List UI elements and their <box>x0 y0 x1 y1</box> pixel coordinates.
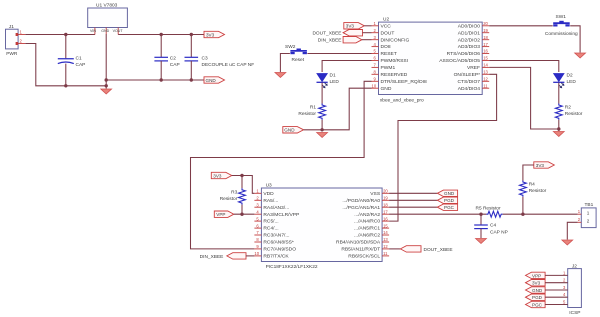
svg-text:.../PGD/AN0/RA0: .../PGD/AN0/RA0 <box>342 198 380 204</box>
wire U2 DTR loop to U3 RC7 <box>191 81 372 249</box>
svg-text:1: 1 <box>587 210 590 215</box>
resistor R2 <box>555 104 582 120</box>
switch SW1 Commissioning <box>545 14 578 37</box>
svg-text:DTR/SLEEP_RQ/DI8: DTR/SLEEP_RQ/DI8 <box>381 79 427 85</box>
svg-text:13: 13 <box>483 70 488 75</box>
svg-text:15: 15 <box>483 56 488 61</box>
svg-text:C2: C2 <box>170 56 176 62</box>
svg-text:.../AN5/RC1: .../AN5/RC1 <box>354 226 380 232</box>
svg-text:R5 Resistor: R5 Resistor <box>476 206 501 212</box>
svg-text:Resistor: Resistor <box>529 188 547 194</box>
svg-text:12: 12 <box>483 77 488 82</box>
junction R3 top <box>240 174 243 177</box>
svg-text:C1: C1 <box>76 56 82 62</box>
connector J1 <box>6 24 26 57</box>
svg-text:VSS: VSS <box>370 191 381 197</box>
flag PGC (J2 pin5) <box>526 300 568 308</box>
switch SW2 Reset <box>285 44 307 63</box>
ground below TB1 <box>562 240 573 245</box>
flag GND (R1 / U2 GND net) <box>283 127 304 133</box>
svg-text:LED: LED <box>330 79 340 85</box>
svg-text:GND: GND <box>101 29 109 33</box>
svg-text:AD0/DIO0: AD0/DIO0 <box>458 23 481 29</box>
svg-text:.../AN4/RC0: .../AN4/RC0 <box>354 219 380 225</box>
junction U1 gnd rail upper <box>105 78 108 81</box>
wire U2 VREF tie to ground junction <box>489 67 559 129</box>
svg-text:ON/SLEEP*: ON/SLEEP* <box>454 72 480 78</box>
flag GND (power rail) <box>204 77 225 83</box>
junction R2 bottom <box>557 127 560 130</box>
junction C3 top <box>190 33 193 36</box>
voltage regulator U1 <box>88 2 128 34</box>
connector J2 <box>568 263 582 316</box>
wire 3V3 to VDD pin1 <box>232 176 255 194</box>
wire R2 to ground junction <box>558 120 560 131</box>
wire U2 ASSOC to D2 <box>489 61 559 73</box>
svg-text:RC6/AN8/SS*: RC6/AN8/SS* <box>263 240 294 246</box>
svg-text:DOUT_XBEE: DOUT_XBEE <box>312 31 341 37</box>
svg-text:AD4/DIO4: AD4/DIO4 <box>458 86 481 92</box>
junction R4 bottom <box>521 213 524 216</box>
wire 3V3 to R4 <box>523 165 534 181</box>
svg-text:AD3/DIO3: AD3/DIO3 <box>458 44 481 50</box>
svg-text:RESET: RESET <box>381 51 397 57</box>
svg-text:PWM0/RSSI: PWM0/RSSI <box>381 58 408 64</box>
svg-text:DIN/CONFIG: DIN/CONFIG <box>381 37 410 43</box>
svg-text:PIC18F1XK22/LF1XK22: PIC18F1XK22/LF1XK22 <box>266 264 318 270</box>
junction U1 gnd rail lower <box>105 84 108 87</box>
svg-text:Resistor: Resistor <box>565 111 583 117</box>
wire R4 to junction <box>522 197 524 214</box>
svg-text:RA4/AN3/...: RA4/AN3/... <box>263 205 289 211</box>
svg-text:3V3: 3V3 <box>213 173 222 178</box>
flag 3V3 (R4 pullup) <box>534 162 555 168</box>
svg-text:VCC: VCC <box>381 23 392 29</box>
wire U1 GND down to ground <box>105 34 107 89</box>
svg-text:DECOUPLE uC CAP NF: DECOUPLE uC CAP NF <box>202 62 255 68</box>
resistor R1 <box>298 104 325 120</box>
ground below R1 <box>317 133 328 138</box>
wire R1 to ground junction <box>321 120 323 130</box>
svg-text:RB7/TX/CK: RB7/TX/CK <box>263 254 289 260</box>
svg-text:VDD: VDD <box>263 191 274 197</box>
wire R5 to TB1 pin1 <box>503 213 578 215</box>
wire VPP flag to MCLR pin4 <box>234 213 255 215</box>
svg-text:DIN_XBEE: DIN_XBEE <box>200 254 224 260</box>
svg-text:D1: D1 <box>330 73 336 79</box>
wire U2 PWM0/RSSI to D1 <box>322 61 371 73</box>
LED D1 <box>317 73 340 89</box>
U3 right pin stubs and numbers <box>382 189 389 257</box>
wire U2 ON/SLEEP loop to U3 RC0 <box>389 74 497 221</box>
wire GND flag to junction to U2 GND riser <box>304 88 372 130</box>
svg-text:DIN_XBEE: DIN_XBEE <box>318 38 342 44</box>
svg-text:Resistor: Resistor <box>220 196 238 202</box>
ground below SW2 <box>275 73 286 78</box>
wire D2 to R2 <box>558 83 560 104</box>
svg-text:GND: GND <box>532 288 543 293</box>
svg-text:10: 10 <box>254 251 259 256</box>
flag 3V3 (regulator output) <box>204 31 225 37</box>
svg-text:AD1/DIO1: AD1/DIO1 <box>458 30 481 36</box>
svg-text:18: 18 <box>483 35 488 40</box>
svg-text:RC4/...: RC4/... <box>263 226 278 232</box>
svg-text:CAP: CAP <box>76 62 86 68</box>
flag 3V3 (U2 VCC) <box>344 23 372 29</box>
svg-text:GND: GND <box>381 86 392 92</box>
svg-text:19: 19 <box>383 196 388 201</box>
junction C2 top <box>160 33 163 36</box>
wire U3 RA2 to R5 <box>389 213 486 215</box>
svg-text:DO8: DO8 <box>381 44 391 50</box>
flag PGC (U3 RA1) <box>389 204 458 210</box>
terminal block TB1 <box>578 202 597 228</box>
svg-text:CTS/DIO7: CTS/DIO7 <box>457 79 480 85</box>
flag 3V3 (U3 VDD pullup rail) <box>211 172 232 178</box>
resistor R3 <box>220 176 246 215</box>
flag GND (U3 VSS) <box>389 190 458 196</box>
resistor R4 <box>520 181 547 197</box>
svg-text:PWM1: PWM1 <box>381 65 396 71</box>
microcontroller U3 <box>261 182 382 269</box>
svg-text:RB6/SCK/SCL: RB6/SCK/SCL <box>348 254 380 260</box>
svg-text:R2: R2 <box>565 105 571 111</box>
svg-text:Resistor: Resistor <box>298 111 316 117</box>
svg-text:13: 13 <box>383 237 388 242</box>
svg-text:15: 15 <box>383 223 388 228</box>
svg-text:RA5/...: RA5/... <box>263 198 278 204</box>
svg-text:ICSP: ICSP <box>569 310 580 316</box>
svg-text:DOUT_XBEE: DOUT_XBEE <box>424 247 453 253</box>
svg-text:RC3/AN7/...: RC3/AN7/... <box>263 233 289 239</box>
wire U2 AD0 to SW1 <box>489 25 553 27</box>
svg-text:18: 18 <box>383 202 388 207</box>
svg-text:12: 12 <box>383 244 388 249</box>
svg-text:VPP: VPP <box>216 212 225 217</box>
svg-text:xbee_and_xbee_pro: xbee_and_xbee_pro <box>380 98 424 104</box>
wire SW1 right to ground <box>570 26 580 53</box>
svg-text:PWR: PWR <box>6 51 18 57</box>
wire SW2 left to ground <box>280 54 290 73</box>
wire J1 pin2 down and along bottom <box>25 44 106 86</box>
svg-text:RC7/AN9/SDO: RC7/AN9/SDO <box>263 247 296 253</box>
svg-text:10: 10 <box>372 83 377 88</box>
flag PGD (U3 RA0) <box>389 197 458 203</box>
svg-text:20: 20 <box>383 189 388 194</box>
svg-text:U1 V7803: U1 V7803 <box>96 2 118 8</box>
LED D2 <box>553 73 576 89</box>
svg-text:ASSOC/AD5/DIO5: ASSOC/AD5/DIO5 <box>439 58 480 64</box>
wire J1 pin1 to U1 VIN <box>25 34 95 36</box>
svg-text:.../PGC/AN1/RA1: .../PGC/AN1/RA1 <box>342 205 380 211</box>
svg-text:RTS/AD6/DIO6: RTS/AD6/DIO6 <box>447 51 481 57</box>
svg-text:RA3/MCLR/VPP: RA3/MCLR/VPP <box>263 212 299 218</box>
flag VPP (U3 MCLR) <box>214 211 234 217</box>
svg-text:20: 20 <box>483 21 488 26</box>
wire TB1 pin2 to ground <box>567 222 577 239</box>
flag 3V3 (J2 pin2) <box>526 278 568 286</box>
svg-text:R3: R3 <box>231 190 237 196</box>
svg-text:J2: J2 <box>572 263 577 269</box>
svg-text:17: 17 <box>483 42 488 47</box>
U2 right pin names <box>439 23 480 91</box>
svg-text:PGC: PGC <box>444 205 455 210</box>
wire GND rail to C2 C3 and GND flag <box>106 79 204 81</box>
junction R3 bottom <box>240 213 243 216</box>
U3 left pin stubs and numbers <box>254 189 261 257</box>
junction C1 bottom <box>64 84 67 87</box>
svg-text:GND: GND <box>284 128 295 133</box>
svg-text:PGC: PGC <box>532 302 543 307</box>
svg-text:19: 19 <box>483 28 488 33</box>
svg-text:SW2: SW2 <box>285 44 296 50</box>
svg-text:RB5/AN11/RX/DT: RB5/AN11/RX/DT <box>341 247 380 253</box>
flag DIN_XBEE (U2 DIN) <box>318 37 372 44</box>
U2 right pin stubs and numbers <box>482 21 489 88</box>
flag DOUT_XBEE (U2 DOUT) <box>312 30 371 37</box>
svg-text:U2: U2 <box>383 17 389 23</box>
svg-text:RB4/AN10/SDI/SDA: RB4/AN10/SDI/SDA <box>336 240 381 246</box>
svg-text:3V3: 3V3 <box>206 32 215 37</box>
svg-text:J1: J1 <box>9 24 14 30</box>
U3 left pin names <box>263 191 299 260</box>
svg-text:11: 11 <box>483 83 488 88</box>
wire D1 to R1 <box>321 83 323 104</box>
svg-text:RESERVED: RESERVED <box>381 72 408 78</box>
svg-text:DOUT: DOUT <box>381 30 395 36</box>
svg-text:3V3: 3V3 <box>346 24 355 29</box>
svg-text:14: 14 <box>383 230 388 235</box>
svg-text:TB1: TB1 <box>585 202 594 208</box>
svg-text:U3: U3 <box>266 182 272 188</box>
capacitor C3 <box>185 35 255 81</box>
ground below SW1 <box>575 53 586 58</box>
junction C3 bottom <box>190 78 193 81</box>
svg-text:VOUT: VOUT <box>113 29 124 33</box>
junction C1 top <box>64 33 67 36</box>
U2 left pin names <box>381 23 427 91</box>
flag DIN_XBEE (U3 RB7) <box>200 253 255 260</box>
svg-text:GND: GND <box>206 78 217 83</box>
ground below R2 <box>553 132 564 137</box>
svg-text:VIN: VIN <box>90 29 96 33</box>
svg-text:3V3: 3V3 <box>532 281 541 286</box>
svg-text:C4: C4 <box>490 223 496 229</box>
svg-text:CAP: CAP <box>170 62 180 68</box>
U3 right pin names <box>336 191 381 260</box>
svg-text:PGD: PGD <box>444 198 455 203</box>
U2 left pin stubs and numbers <box>372 21 379 88</box>
flag GND (J2 pin3) <box>526 285 568 293</box>
svg-text:VREF: VREF <box>467 65 480 71</box>
svg-text:.../AN6/RC2: .../AN6/RC2 <box>354 233 380 239</box>
svg-text:16: 16 <box>483 49 488 54</box>
resistor R5 <box>476 206 503 218</box>
svg-text:GND: GND <box>444 191 455 196</box>
svg-text:AD2/DIO2: AD2/DIO2 <box>458 37 481 43</box>
svg-text:LED: LED <box>567 79 577 85</box>
svg-text:Reset: Reset <box>292 57 305 63</box>
capacitor C2 <box>154 35 179 81</box>
svg-text:3V3: 3V3 <box>536 163 545 168</box>
svg-text:14: 14 <box>483 63 488 68</box>
flag DOUT_XBEE (U3 RB5) <box>389 246 452 253</box>
capacitor C4 <box>474 214 508 238</box>
ground below U1 <box>101 89 112 94</box>
wire U1 VOUT to 3V3 rail <box>118 34 204 36</box>
svg-text:R1: R1 <box>310 105 316 111</box>
svg-text:RC5/...: RC5/... <box>263 219 278 225</box>
junction C4 top <box>479 213 482 216</box>
flag VPP (J2 pin1) <box>526 270 568 278</box>
ground below C4 <box>476 239 487 244</box>
junction R1 bottom <box>320 128 323 131</box>
svg-text:VPP: VPP <box>532 273 541 278</box>
svg-text:Commissioning: Commissioning <box>545 31 578 37</box>
svg-text:17: 17 <box>383 209 388 214</box>
svg-text:.../AN2/RA2: .../AN2/RA2 <box>354 212 380 218</box>
capacitor C1 <box>58 35 86 86</box>
svg-text:C3: C3 <box>202 56 208 62</box>
svg-text:R4: R4 <box>529 182 535 188</box>
svg-text:16: 16 <box>383 216 388 221</box>
svg-text:D2: D2 <box>567 73 573 79</box>
junction C2 bottom <box>160 78 163 81</box>
svg-text:CAP NP: CAP NP <box>490 230 508 236</box>
svg-text:SW1: SW1 <box>556 14 567 20</box>
flag PGD (J2 pin4) <box>526 292 568 300</box>
xbee module U2 <box>379 17 483 104</box>
svg-text:2: 2 <box>587 219 590 224</box>
wire SW2 to U2 RESET <box>307 53 371 55</box>
svg-text:11: 11 <box>383 251 388 256</box>
svg-text:PGD: PGD <box>532 295 543 300</box>
